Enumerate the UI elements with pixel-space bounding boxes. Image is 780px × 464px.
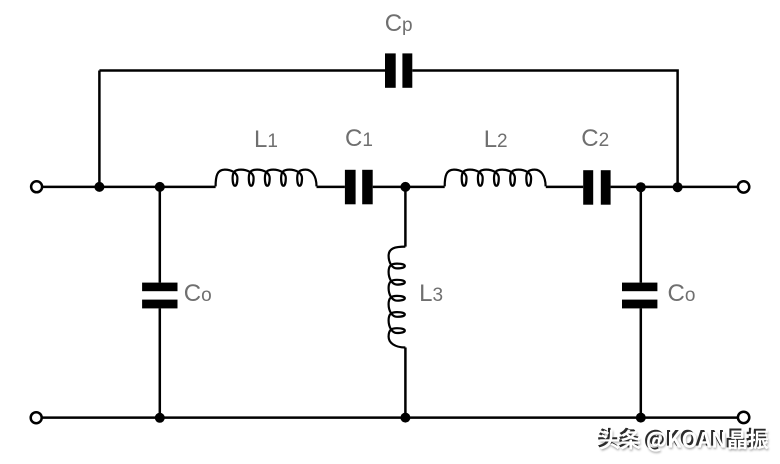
- node: junction of bypass and main rail (right): [673, 182, 683, 192]
- label L3: [419, 280, 443, 308]
- inductor L1: [216, 170, 317, 187]
- wire: C2 to output terminal: [611, 186, 738, 189]
- inductor L3: [389, 247, 406, 348]
- node: junction of Co-left and bottom rail: [155, 413, 165, 423]
- label C2: [581, 125, 609, 153]
- terminal: output top-right (open circle): [738, 181, 749, 192]
- wire: L2 to C2: [546, 186, 583, 189]
- label Cp: [385, 10, 413, 38]
- node: junction of C2 and Co-right: [636, 182, 646, 192]
- terminal: bottom-left (open circle): [31, 412, 42, 423]
- wire: L1 to C1: [317, 186, 345, 189]
- node: junction of Co-right and bottom rail: [636, 413, 646, 423]
- node: junction of bypass and main rail (left): [94, 182, 104, 192]
- label Co right: [668, 280, 696, 308]
- node: junction of C1/L2/L3: [400, 182, 410, 192]
- inductor L2: [445, 170, 546, 187]
- wire: bypass top right segment: [412, 71, 677, 187]
- wire: right Co branch upper: [640, 187, 643, 283]
- node: junction of L3 and bottom rail: [400, 413, 410, 423]
- label Co left: [184, 280, 212, 308]
- label C1: [345, 125, 373, 153]
- wire: main rail left segment (input to L1): [43, 186, 216, 189]
- wire: bottom rail: [42, 416, 737, 419]
- capacitor Cp: [385, 53, 412, 87]
- capacitor Co left: [142, 283, 177, 309]
- terminal: bottom-right (open circle): [738, 412, 749, 423]
- label L1: [254, 126, 278, 154]
- capacitor C2: [583, 170, 610, 205]
- wire: bypass branch left vertical: [98, 71, 101, 187]
- capacitor Co right: [622, 283, 657, 309]
- capacitor C1: [345, 170, 373, 205]
- wire: C1 to L2: [373, 186, 445, 189]
- wire: right Co branch lower: [640, 308, 643, 417]
- wire: L3 branch upper: [404, 187, 407, 247]
- wire: bypass top left segment: [99, 69, 385, 72]
- label L2: [484, 126, 508, 154]
- watermark: [598, 428, 769, 453]
- terminal: input top-left (open circle): [31, 181, 42, 192]
- wire: L3 branch lower: [404, 348, 407, 418]
- wire: left Co branch lower: [159, 308, 162, 417]
- node: junction of Co-left and main rail: [155, 182, 165, 192]
- wire: left Co branch upper: [159, 187, 162, 283]
